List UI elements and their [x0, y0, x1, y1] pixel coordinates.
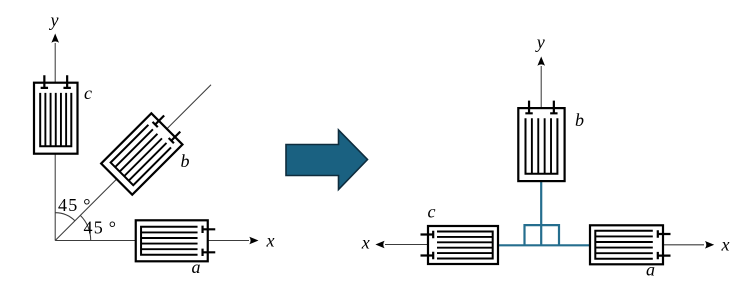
svg-text:a: a — [646, 260, 655, 280]
left y-axis — [54, 43, 56, 241]
svg-text:x: x — [721, 235, 730, 255]
45deg diagonal line — [55, 85, 211, 241]
winding c (right) — [421, 226, 499, 264]
svg-text:b: b — [575, 110, 584, 130]
svg-text:y: y — [535, 32, 545, 52]
winding b (right) — [518, 101, 564, 182]
svg-text:y: y — [49, 10, 59, 30]
right x-axis right — [661, 244, 704, 246]
teal wire: b drop — [540, 178, 542, 245]
45 deg arc upper — [55, 213, 75, 221]
teal wire: staple loop — [525, 225, 560, 245]
svg-text:x: x — [266, 231, 275, 251]
winding c (left) — [34, 75, 78, 154]
winding a (right) — [590, 225, 671, 264]
winding b (left, 45deg) — [101, 108, 188, 195]
big transform arrow — [286, 130, 368, 190]
svg-text:c: c — [84, 83, 92, 103]
svg-text:x: x — [361, 233, 370, 253]
svg-text:c: c — [428, 202, 436, 222]
45 deg arc lower — [80, 215, 90, 240]
svg-text:b: b — [181, 151, 190, 171]
svg-text:a: a — [192, 257, 201, 277]
right y-axis — [540, 66, 542, 110]
svg-text:45 °: 45 ° — [84, 218, 118, 238]
winding a (left) — [136, 220, 216, 261]
right x-axis left — [385, 244, 430, 246]
teal wire: horizontal bus c-a — [497, 244, 591, 246]
left x-axis — [55, 240, 249, 242]
svg-text:45 °: 45 ° — [58, 195, 92, 215]
